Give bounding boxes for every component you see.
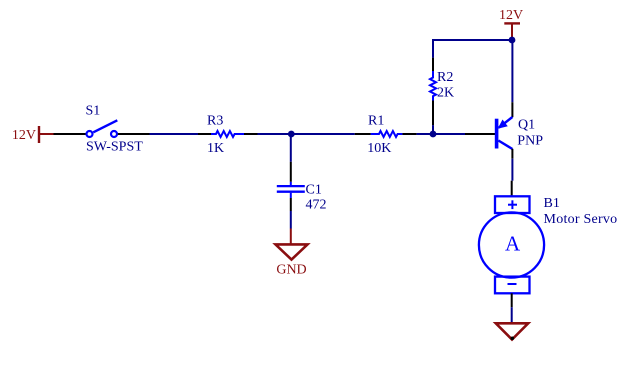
svg-text:C1: C1	[306, 182, 322, 197]
wire: B1 minus pin	[511, 293, 513, 307]
svg-text:R3: R3	[207, 113, 223, 128]
svg-text:GND: GND	[276, 262, 306, 277]
wire: R1 to node B	[417, 133, 433, 135]
wire: S1 to R3	[150, 133, 199, 135]
svg-text:12V: 12V	[12, 128, 36, 143]
svg-text:SW-SPST: SW-SPST	[86, 140, 143, 155]
svg-text:Q1: Q1	[518, 118, 535, 133]
resistor R1	[371, 131, 403, 137]
svg-text:A: A	[505, 231, 521, 255]
junction node A	[288, 131, 295, 138]
wire: R2 top pin	[432, 58, 434, 71]
power terminal 12V (left)	[39, 126, 54, 143]
wire: node C down to Q1 emitter	[511, 40, 513, 102]
wire: 12V terminal to S1 pin	[54, 133, 87, 135]
svg-text:2K: 2K	[437, 86, 454, 101]
wire: R2 top corner to 12V node	[433, 40, 512, 58]
switch S1	[87, 120, 118, 137]
capacitor C1	[277, 182, 305, 198]
wire: R3 left pin	[198, 133, 211, 135]
wire: R1 right pin	[402, 133, 416, 135]
wire: R3 right pin	[244, 133, 258, 135]
svg-text:1K: 1K	[207, 141, 224, 156]
svg-text:PNP: PNP	[517, 133, 543, 148]
wire: B1 plus pin	[511, 181, 513, 196]
wire: C1 to GND	[290, 211, 292, 229]
svg-text:B1: B1	[544, 196, 560, 211]
svg-text:472: 472	[306, 197, 327, 212]
wire: Q1 collector pin	[511, 149, 513, 159]
wire: node A down to C1	[290, 134, 292, 162]
transistor Q1 (PNP)	[497, 117, 513, 149]
wire: R1 left pin	[355, 133, 371, 135]
wire: R3 to node A	[258, 133, 292, 135]
wire: Q1 to motor B1	[511, 159, 513, 181]
resistor R2	[430, 71, 436, 101]
resistor R3	[211, 131, 244, 137]
wire: C1 top pin	[290, 162, 292, 182]
wire: B1 to GND (bottom)	[511, 307, 513, 324]
ground (bottom right)	[496, 323, 528, 340]
wire: node B to Q1 base	[433, 133, 465, 135]
svg-text:12V: 12V	[499, 8, 523, 23]
svg-text:S1: S1	[86, 103, 101, 118]
wire: C1 bottom pin	[290, 198, 292, 211]
ground GND (left)	[276, 229, 308, 260]
wire: Q1 base pin	[465, 133, 496, 135]
motor B1	[479, 196, 544, 293]
wire: Q1 emitter pin	[511, 102, 513, 117]
wire: R2 bottom pin	[432, 101, 434, 126]
svg-text:R2: R2	[437, 70, 453, 85]
junction node C (12V rail)	[509, 37, 516, 44]
wire: node B up to R2	[432, 125, 434, 134]
wire: S1 right pin	[118, 133, 150, 135]
junction node B	[430, 131, 437, 138]
svg-text:10K: 10K	[367, 141, 391, 156]
wire: node A to R1	[292, 133, 355, 135]
svg-text:Motor Servo: Motor Servo	[544, 212, 618, 227]
svg-text:R1: R1	[368, 113, 384, 128]
power terminal 12V (top)	[504, 23, 520, 40]
